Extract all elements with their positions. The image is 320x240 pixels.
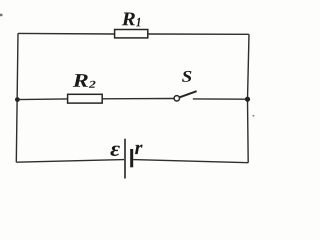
wire (middle, left of R2) (17, 98, 67, 101)
wire (right vertical) (248, 34, 250, 162)
label S (182, 71, 191, 82)
wire (left vertical) (16, 33, 18, 162)
label r (internal resistance) (135, 145, 143, 155)
switch S (pivot circle) (174, 96, 179, 101)
node (left junction) (15, 97, 20, 102)
battery plate (long, +) (124, 139, 126, 179)
wire (bottom, left of battery) (16, 160, 124, 163)
stray speck (right, below junction) (252, 115, 254, 117)
label R2 (73, 74, 88, 87)
stray scan mark (top-left) (0, 14, 3, 17)
label R1 (122, 13, 135, 26)
wire (middle, switch to right) (193, 98, 248, 100)
wire (top, right of R1) (148, 33, 249, 35)
node (right junction) (245, 97, 250, 102)
wire (bottom, right of battery) (133, 160, 248, 163)
resistor R1 (115, 30, 148, 38)
wire (top, left of R1) (18, 32, 115, 35)
resistor R2 (68, 94, 103, 103)
label ε (emf) (110, 146, 120, 156)
switch S (blade) (179, 91, 196, 97)
wire (middle, R2 to switch) (102, 98, 174, 100)
battery plate (short, -) (130, 149, 133, 167)
